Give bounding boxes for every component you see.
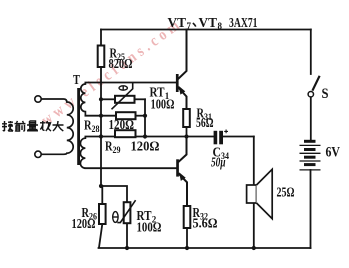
transformer T secondary bottom winding — [80, 137, 85, 169]
thermistor RT1 theta symbol (sideways) — [119, 86, 127, 90]
wire node A to RT2 branch — [101, 186, 127, 202]
svg-text:100Ω: 100Ω — [151, 97, 175, 112]
char jie — [2, 121, 13, 131]
wire VT8 collector up to node — [179, 137, 187, 162]
transformer T primary input terminal bottom — [35, 151, 41, 157]
wire VT7 base line / node B1 — [85, 82, 176, 84]
node R32 bottom rail junction — [185, 246, 189, 250]
wire R31 bottom lead — [186, 127, 188, 137]
thermistor RT1 diagonal and stub — [112, 83, 133, 110]
speaker driver box — [247, 185, 257, 203]
transformer T core — [77, 88, 80, 165]
thermistor RT2 theta symbol — [113, 212, 118, 223]
resistor R26 body — [99, 204, 106, 224]
capacitor C34 right plate — [219, 131, 223, 145]
wire center-tap line right of R29 to C34 — [136, 136, 214, 138]
node RT1 left junction — [99, 97, 103, 101]
svg-text:820Ω: 820Ω — [109, 56, 133, 71]
wire speaker bottom lead — [253, 203, 255, 248]
transformer T secondary top winding — [81, 83, 86, 116]
transformer T primary winding — [64, 99, 74, 154]
label chinese input text (hand drawn glyphs) — [2, 121, 64, 131]
char da — [53, 121, 64, 131]
wire VT7 collector to top rail — [179, 30, 187, 79]
svg-text:100Ω: 100Ω — [137, 220, 162, 235]
svg-text:5.6Ω: 5.6Ω — [193, 216, 218, 231]
resistor R32 body — [184, 206, 191, 228]
char fang — [40, 121, 51, 131]
transformer T primary input terminal top — [35, 96, 41, 102]
transistor VT7 base bar — [176, 74, 179, 92]
resistor R25 body — [98, 46, 105, 68]
wire VT7 emitter to R31 — [179, 88, 187, 109]
node R28 right junction — [143, 114, 147, 118]
node left rail center-tap junction — [99, 134, 103, 138]
svg-text:29: 29 — [113, 145, 121, 155]
wire speaker top lead — [253, 137, 255, 186]
wire VT8 base line — [85, 167, 176, 169]
switch S contact circle — [308, 92, 313, 97]
capacitor C34 plus sign — [224, 130, 228, 134]
transistor VT8 emitter arrow (PNP) — [179, 172, 186, 181]
svg-text:8: 8 — [218, 21, 223, 31]
transistor VT7 emitter arrow (PNP) — [179, 86, 186, 95]
resistor R31 body — [183, 109, 190, 127]
char liang — [27, 121, 38, 131]
wire VT8 emitter to R32 — [179, 174, 187, 206]
char qian — [15, 121, 26, 131]
svg-text:120Ω: 120Ω — [109, 117, 135, 132]
svg-text:6V: 6V — [326, 145, 341, 161]
wire switch feed from top rail — [310, 30, 312, 75]
wire R28 right lead — [136, 115, 146, 117]
wire bottom terminal to primary — [41, 153, 63, 155]
wire RT1 right lead — [135, 98, 146, 100]
wire R26 bottom lead — [99, 224, 102, 248]
wire C34 right to speaker column — [223, 136, 254, 138]
svg-text:56Ω: 56Ω — [196, 115, 214, 130]
node A lower bias junction — [99, 184, 103, 188]
node R28 left junction — [99, 114, 103, 118]
svg-text:25Ω: 25Ω — [277, 185, 295, 200]
svg-text:S: S — [322, 86, 329, 102]
thermistor RT2 body — [124, 202, 131, 223]
transistor VT8 base bar — [176, 159, 179, 176]
svg-text:120Ω: 120Ω — [131, 139, 160, 154]
wire left rail down to lower bias network — [100, 137, 102, 187]
wire top terminal to primary — [41, 98, 63, 100]
wire bottom rail — [99, 247, 311, 249]
wire battery bottom to rail — [310, 170, 312, 248]
wire R28 left lead with coil end — [85, 115, 116, 117]
wire R32 bottom lead — [186, 228, 188, 248]
resistor R28 body — [116, 112, 136, 119]
wire R25 drop from rail — [100, 30, 102, 46]
switch S blade — [312, 76, 319, 91]
wire left bias rail — [100, 83, 102, 137]
svg-text:VT: VT — [199, 16, 218, 31]
svg-text:7: 7 — [187, 21, 192, 31]
watermark — [38, 15, 186, 130]
svg-text:VT: VT — [168, 16, 187, 31]
svg-text:www.elecfans.com: www.elecfans.com — [38, 15, 186, 130]
capacitor C34 left plate — [214, 131, 218, 145]
battery 6V plates — [300, 141, 321, 170]
wire switch to battery — [310, 97, 312, 140]
node R31 bottom / VT8 collector junction — [184, 134, 188, 138]
wire RT2 bottom lead — [126, 223, 128, 248]
wire R25 bottom lead — [100, 67, 102, 83]
svg-text:28: 28 — [92, 124, 100, 134]
thermistor RT1 body — [115, 96, 135, 103]
node RT2 bottom rail junction — [125, 246, 129, 250]
node speaker bottom rail junction — [252, 246, 256, 250]
wire R26 top lead — [101, 186, 103, 204]
svg-text:3AX71: 3AX71 — [229, 16, 258, 31]
svg-text:50μ: 50μ — [211, 155, 226, 170]
wire top rail — [101, 29, 311, 31]
wire right bias rail — [144, 99, 146, 136]
speaker cone — [257, 169, 273, 218]
svg-text:T: T — [73, 72, 80, 87]
wire RT1 left lead — [101, 98, 115, 100]
svg-text:120Ω: 120Ω — [72, 216, 96, 231]
node bias rail to center-tap line junction — [143, 134, 147, 138]
wire center-tap line left of R29 — [85, 136, 115, 138]
thermistor RT2 diagonal with foot — [117, 200, 135, 222]
resistor R29 body — [115, 130, 136, 137]
